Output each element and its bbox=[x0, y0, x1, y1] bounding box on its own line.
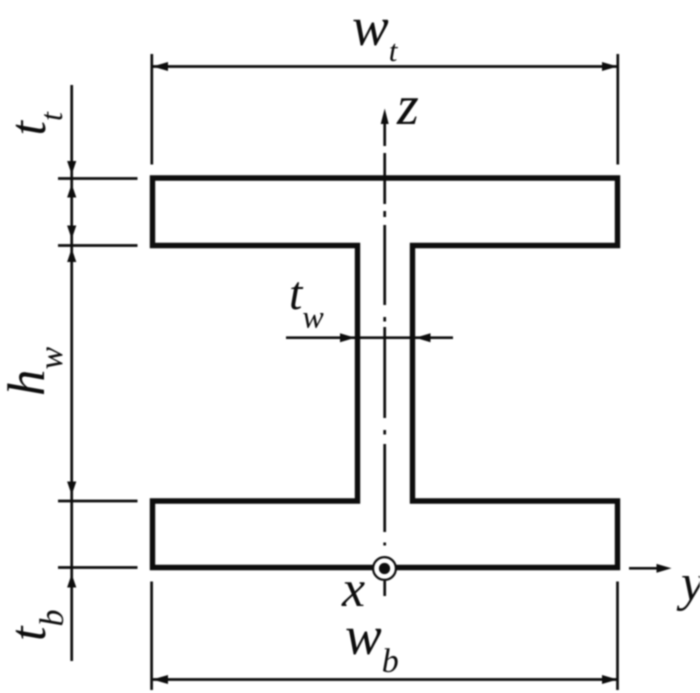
svg-text:hw: hw bbox=[0, 347, 70, 397]
svg-text:tt: tt bbox=[0, 111, 69, 135]
svg-text:wt: wt bbox=[352, 0, 399, 68]
svg-text:tb: tb bbox=[0, 610, 71, 641]
svg-text:tw: tw bbox=[289, 267, 324, 335]
svg-text:x: x bbox=[341, 561, 365, 618]
svg-text:z: z bbox=[396, 75, 419, 137]
svg-text:y: y bbox=[676, 555, 700, 612]
